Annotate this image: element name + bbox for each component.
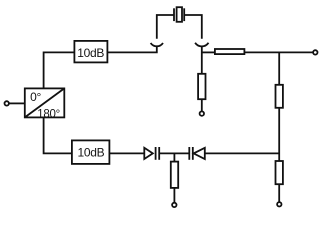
- resistor R3 (vertical bottom right): [276, 161, 283, 184]
- resistor R2 (vertical right): [276, 85, 283, 108]
- resistor R5 (vertical bottom middle): [171, 162, 178, 188]
- crystal X1 right plate: [183, 8, 185, 21]
- wire hybrid top port up and right to attenuator A1: [44, 52, 75, 88]
- resistor R1 (horizontal): [215, 49, 245, 54]
- connector J1 pin / crystal lead left: [157, 15, 174, 39]
- wire node A to resistor R1: [202, 51, 215, 53]
- terminal T1 (input, left): [5, 101, 9, 105]
- wire R2 down to node C: [278, 108, 280, 161]
- capacitor C2 plate 1: [188, 147, 190, 160]
- crystal X1 body: [177, 7, 182, 22]
- svg-text:10dB: 10dB: [77, 145, 104, 159]
- svg-text:10dB: 10dB: [77, 46, 104, 60]
- wire R4 to terminal T3: [201, 99, 203, 111]
- wire hybrid bottom port down and right to attenuator A2: [44, 117, 72, 153]
- capacitor C2 plate 2: [192, 147, 194, 160]
- svg-text:0°: 0°: [30, 90, 41, 104]
- crystal lead right / connector J2 pin: [184, 15, 202, 39]
- hybrid coupler U1 box: [25, 88, 65, 117]
- hybrid diagonal: [25, 88, 65, 117]
- diode D2 triangle: [194, 148, 205, 159]
- wire R1 to terminal T2: [244, 51, 312, 53]
- wire D2 to node C: [205, 152, 279, 154]
- wire R3 to terminal T5: [278, 184, 280, 202]
- capacitor C1 plate 1: [155, 147, 157, 160]
- wire attenuator A2 to diode D1: [109, 152, 144, 154]
- wire attenuator A1 to connector J1: [107, 46, 156, 52]
- capacitor C1 plate 2: [158, 147, 160, 160]
- terminal T3: [200, 111, 204, 115]
- terminal T5 (bottom right): [277, 202, 281, 206]
- connector J2 socket arc: [195, 43, 208, 47]
- resistor R4 (vertical, under J2): [198, 74, 205, 99]
- svg-text:180°: 180°: [37, 109, 60, 121]
- wire node B down to resistor R2: [278, 52, 280, 84]
- wire connector J2 down to node A: [201, 46, 203, 74]
- terminal T4 (bottom middle): [172, 203, 176, 207]
- connector J1 socket arc: [151, 43, 163, 46]
- wire R5 to terminal T4: [173, 188, 175, 203]
- wire T1 to hybrid: [9, 102, 24, 104]
- attenuator A2 box: [72, 140, 110, 164]
- attenuator A1 box: [74, 41, 107, 63]
- crystal X1 left plate: [173, 8, 175, 21]
- diode D1 triangle: [144, 148, 153, 159]
- terminal T2 (top right): [313, 50, 317, 54]
- wire node D down to resistor R5: [173, 153, 175, 161]
- wire C1 to C2 with node D: [159, 152, 189, 154]
